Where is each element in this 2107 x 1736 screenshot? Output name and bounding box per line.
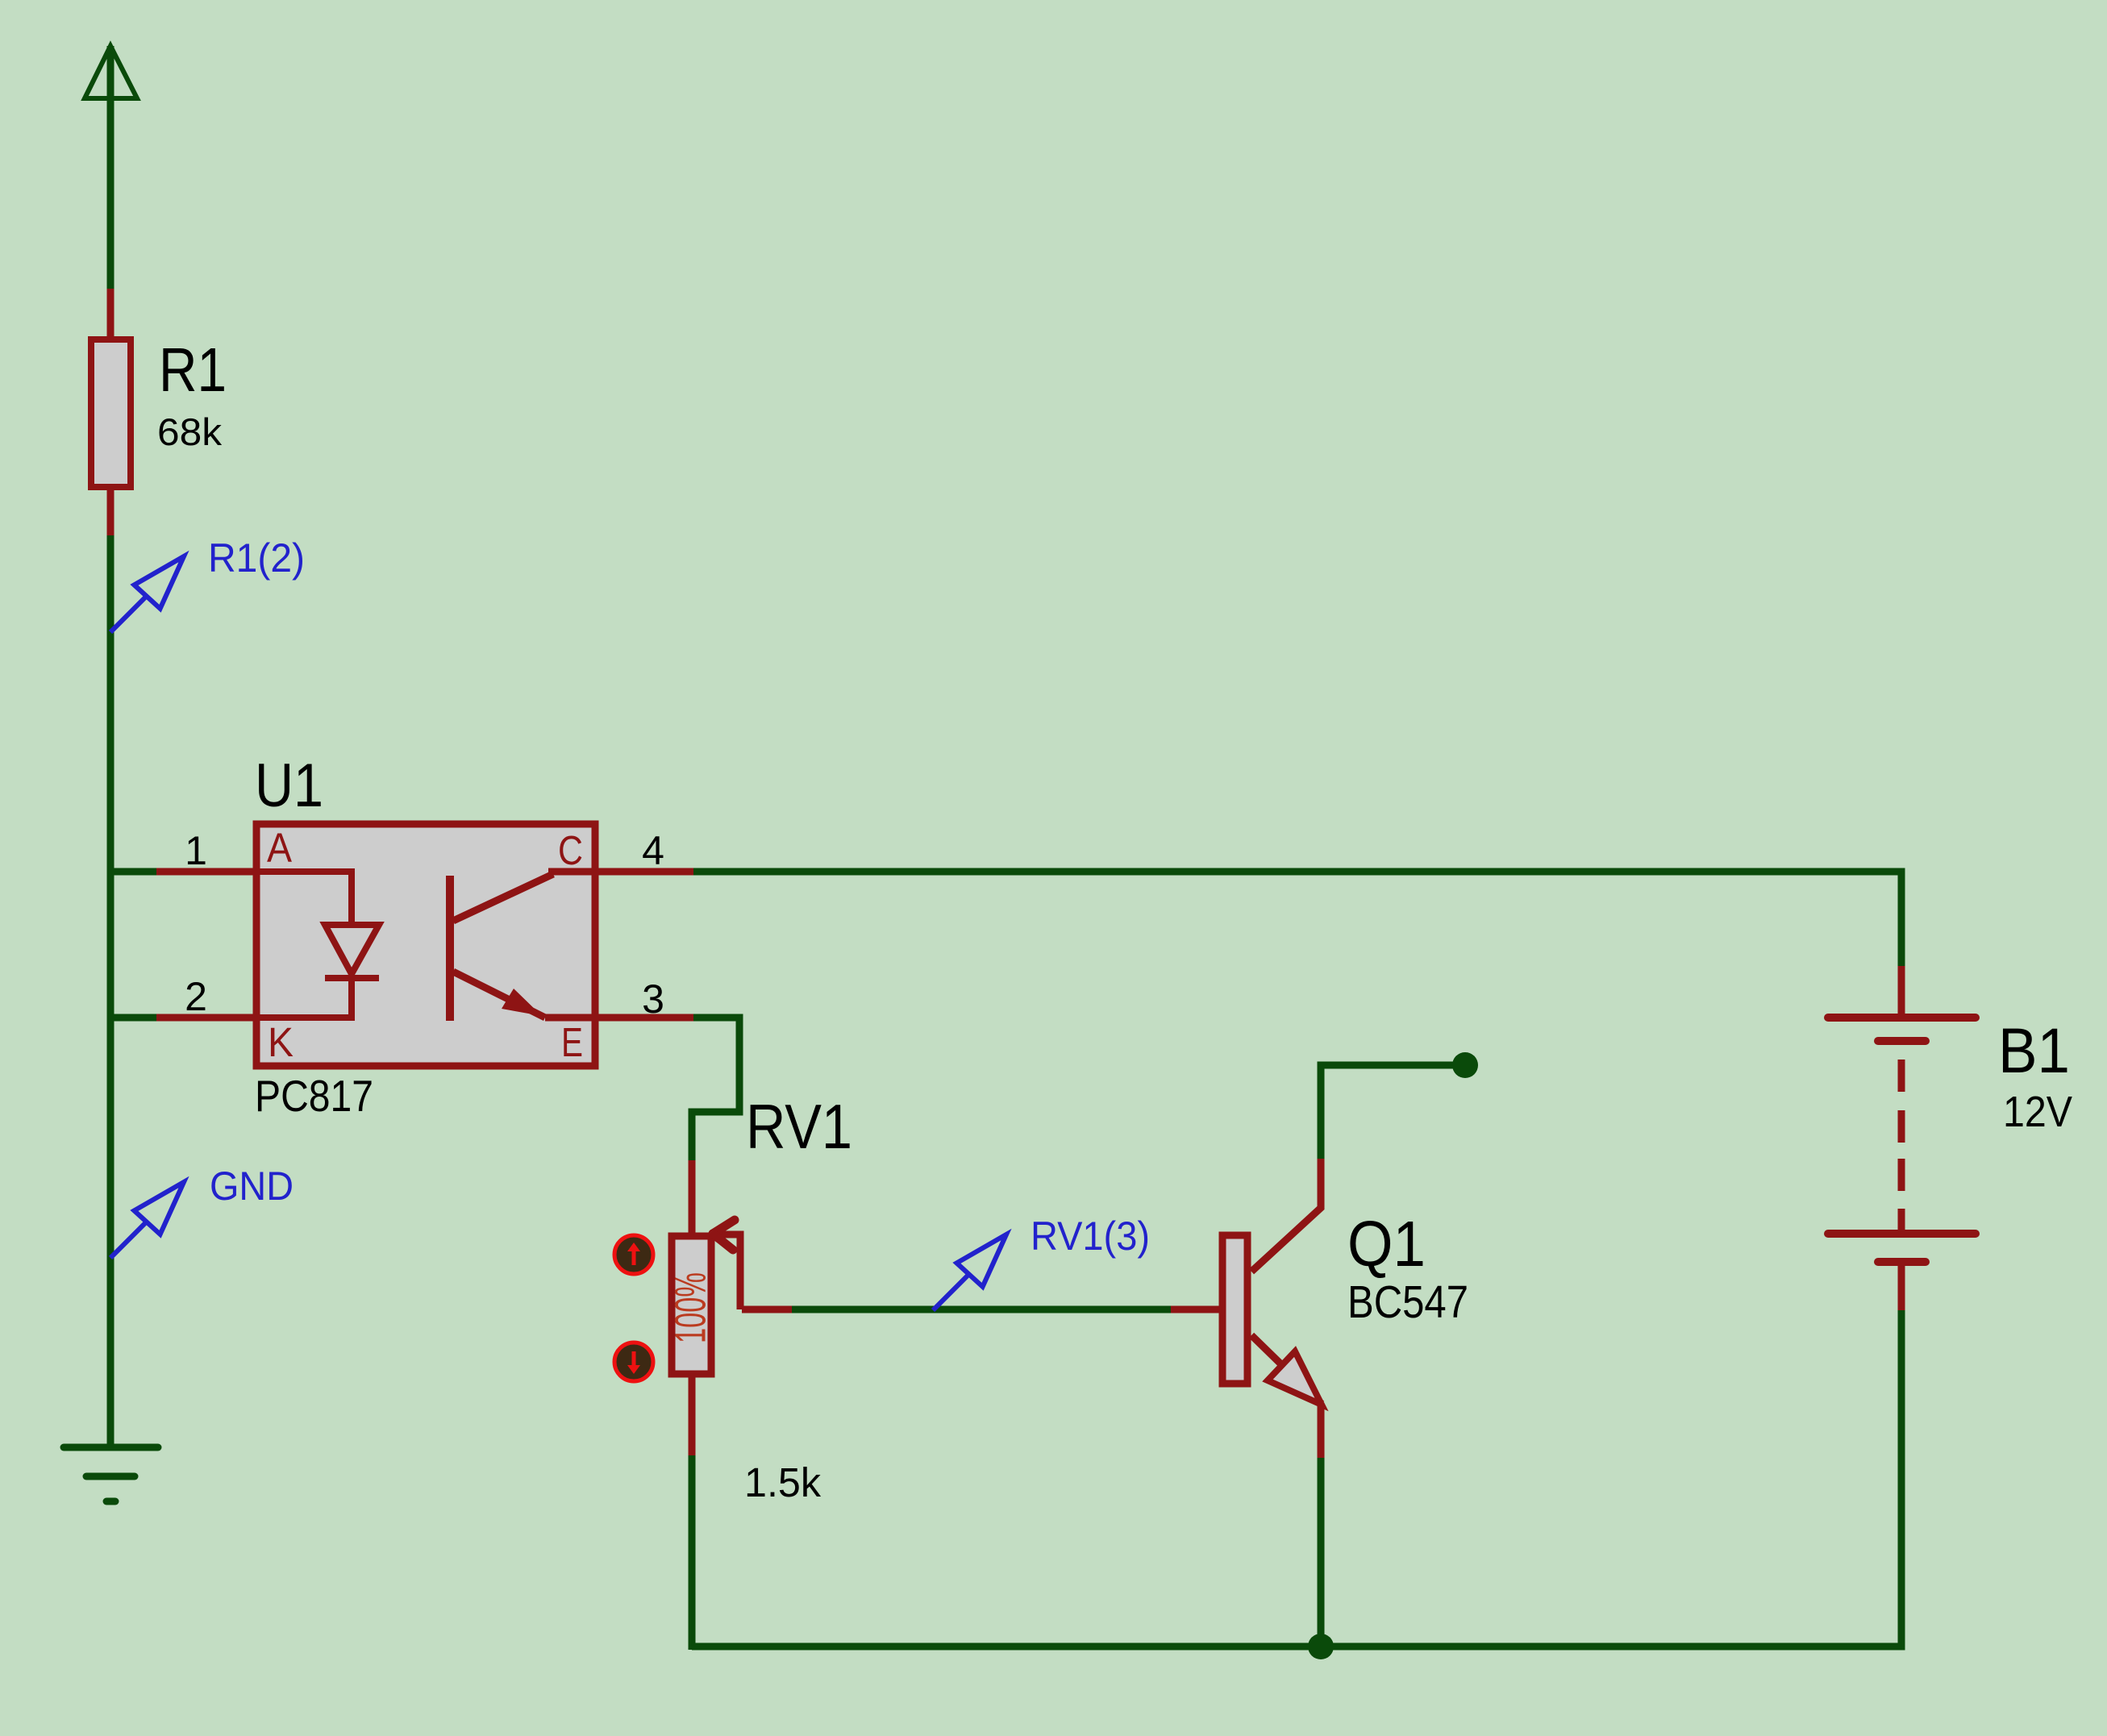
svg-text:1.5k: 1.5k — [744, 1459, 821, 1505]
svg-text:12V: 12V — [2003, 1088, 2072, 1136]
svg-text:100%: 100% — [666, 1272, 714, 1343]
svg-text:C: C — [558, 827, 583, 873]
svg-text:RV1: RV1 — [746, 1091, 852, 1162]
svg-text:1: 1 — [185, 828, 207, 873]
svg-text:PC817: PC817 — [255, 1071, 373, 1121]
svg-text:3: 3 — [642, 976, 664, 1022]
svg-text:RV1(3): RV1(3) — [1031, 1214, 1150, 1259]
svg-text:E: E — [561, 1019, 583, 1065]
svg-text:BC547: BC547 — [1347, 1276, 1468, 1328]
svg-text:Q1: Q1 — [1347, 1208, 1426, 1280]
svg-text:R1: R1 — [159, 335, 227, 405]
svg-text:68k: 68k — [157, 410, 223, 453]
svg-text:K: K — [268, 1019, 294, 1065]
svg-text:2: 2 — [185, 974, 207, 1019]
svg-text:R1(2): R1(2) — [208, 535, 305, 581]
svg-text:GND: GND — [210, 1164, 294, 1209]
svg-text:4: 4 — [642, 828, 664, 873]
svg-text:A: A — [267, 825, 292, 871]
svg-text:B1: B1 — [1998, 1014, 2070, 1086]
svg-text:U1: U1 — [255, 751, 323, 820]
